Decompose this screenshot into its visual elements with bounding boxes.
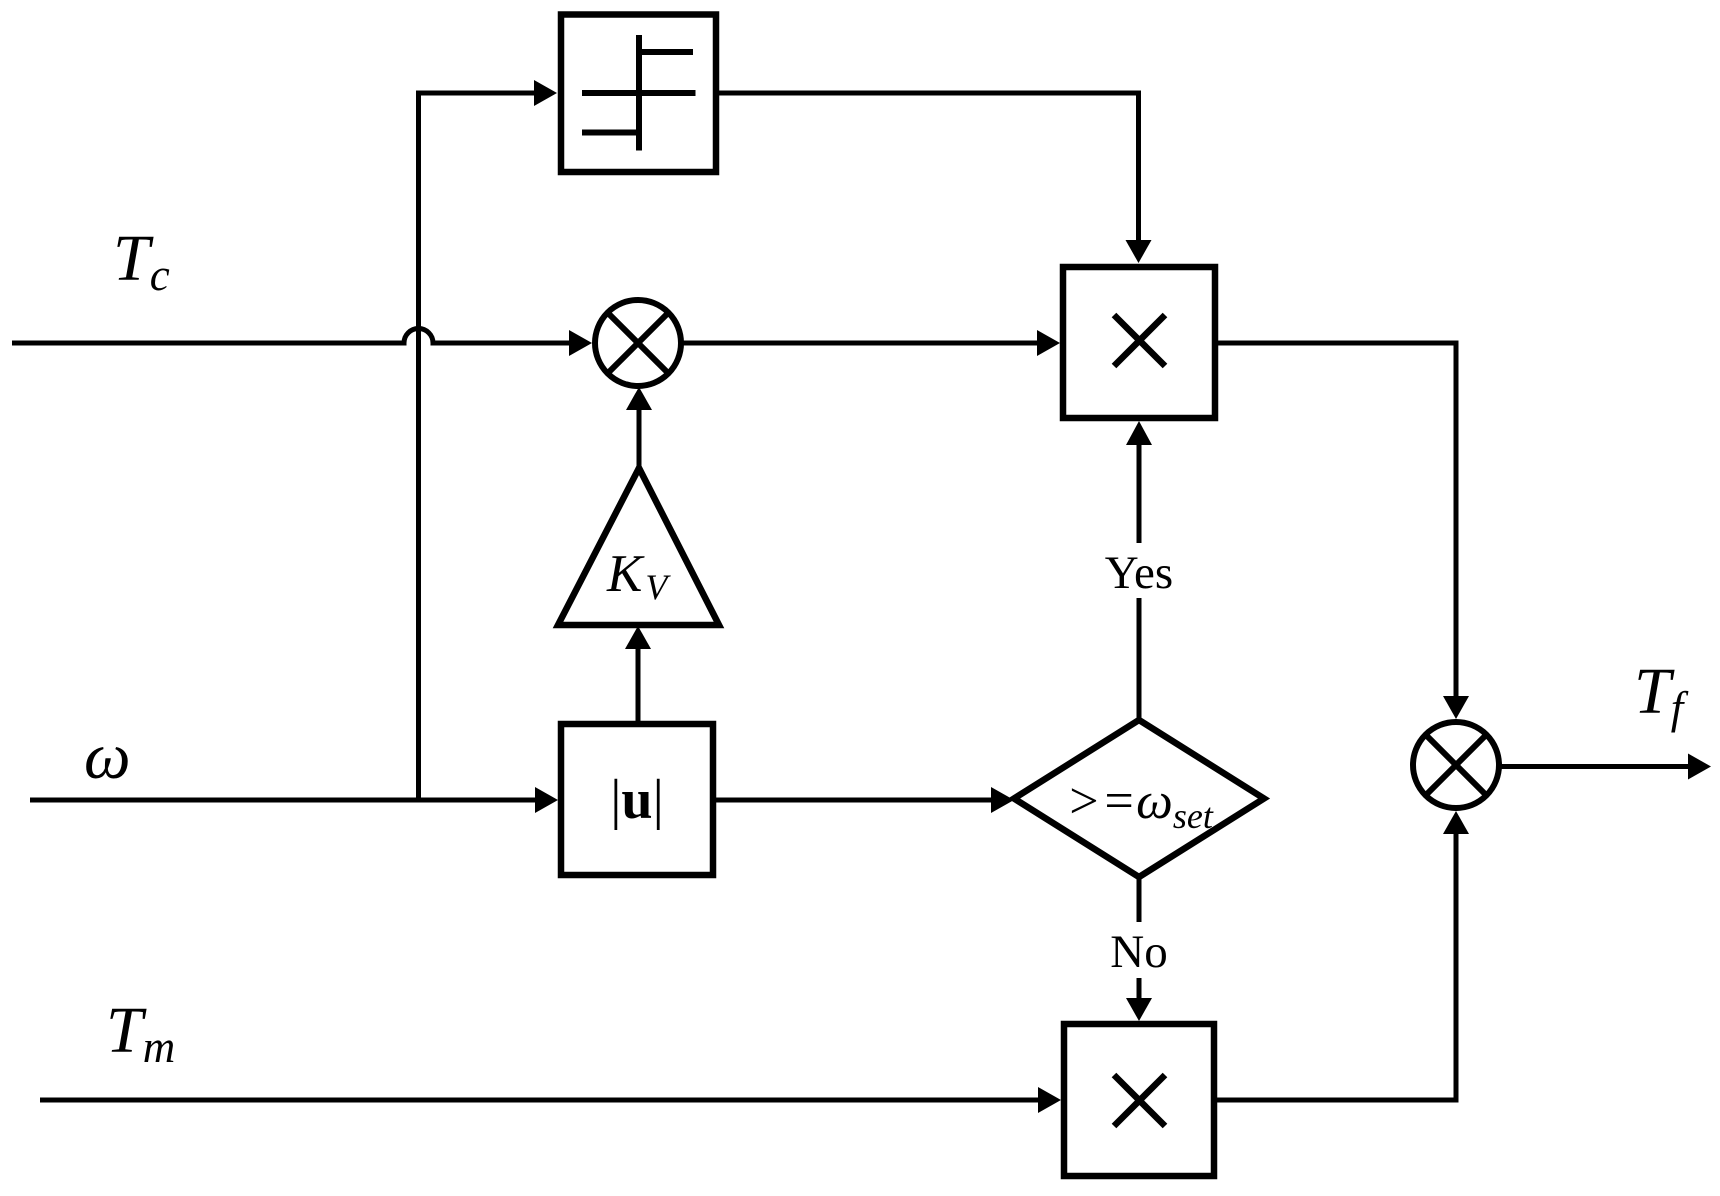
svg-text:>=ωset: >=ωset — [1066, 773, 1214, 836]
wire: triangle apex up to P1 bottom with arrowhead — [626, 387, 652, 468]
svg-text:ω: ω — [84, 720, 131, 793]
abs block |u| box — [561, 724, 713, 875]
wire: relay block output to top multiplier, right then down, with arrowhead — [716, 91, 1152, 264]
svg-text:|u|: |u| — [610, 769, 664, 831]
wire: Yes branch from diamond top to M1 bottom with arrowhead — [1126, 421, 1152, 720]
multiplication cross inside M1 — [1114, 315, 1165, 366]
wire: abs block top up to triangle base with arrowhead — [625, 626, 651, 721]
decision diamond — [1014, 720, 1264, 877]
svg-text:No: No — [1110, 926, 1167, 978]
wire: corner to relay block input with arrowhead — [416, 80, 557, 106]
relay symbol inside relay block — [582, 35, 696, 151]
multiplier junction P2 (circle with cross) — [1413, 722, 1499, 808]
wire: M2 output right then up to P2 bottom with arrowhead — [1214, 811, 1469, 1103]
multiplication cross inside M2 — [1114, 1075, 1165, 1126]
wire: P2 output to Tf with arrowhead — [1499, 754, 1711, 780]
svg-text:Tc: Tc — [113, 222, 170, 300]
svg-text:KV: KV — [606, 545, 671, 607]
wire: omega tap vertical line from relay input corner down to omega line — [416, 91, 421, 801]
wire: No branch from diamond bottom to M2 top with arrowhead — [1126, 877, 1152, 1021]
gain triangle KV — [558, 468, 719, 625]
wire: omega input line to abs block with arrowhead — [30, 787, 558, 813]
svg-text:Tm: Tm — [106, 994, 175, 1072]
svg-text:Tf: Tf — [1634, 655, 1689, 733]
multiplier junction P1 (circle with cross) — [595, 300, 681, 386]
top multiplier box M1 — [1063, 267, 1215, 418]
relay block (hysteresis) box — [561, 15, 716, 173]
wire: M1 output right then down to P2 top with arrowhead — [1215, 341, 1469, 720]
wire: Tm input line to bottom multiplier M2 with arrowhead — [40, 1087, 1061, 1113]
wire: abs block output to decision diamond with arrowhead — [713, 787, 1014, 813]
arrowhead into product junction P1 — [569, 330, 592, 356]
wire: Tc input line with hop over vertical line, into product junction P1 — [12, 329, 571, 344]
bottom multiplier box M2 — [1064, 1024, 1214, 1176]
svg-text:Yes: Yes — [1105, 547, 1173, 599]
wire: P1 output to top multiplier box with arrowhead — [681, 330, 1060, 356]
